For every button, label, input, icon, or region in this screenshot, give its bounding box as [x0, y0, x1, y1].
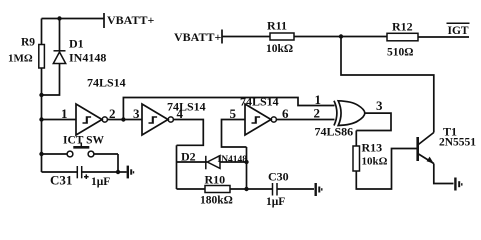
junction: switch row on left rail: [39, 152, 43, 156]
resistor R12: [387, 33, 418, 41]
ground (emitter): [455, 178, 461, 191]
svg-text:1: 1: [61, 106, 68, 121]
capacitor C30: [273, 183, 315, 196]
resistor R11: [270, 33, 294, 40]
resistor R10: [177, 186, 273, 193]
wire: R11 to junction: [294, 36, 341, 38]
wire: VBATT+ to R11: [222, 36, 270, 38]
wire: pin 4 output down to RC network: [173, 120, 203, 146]
ground (C31): [128, 166, 134, 179]
svg-text:10kΩ: 10kΩ: [362, 156, 388, 168]
svg-text:3: 3: [133, 106, 140, 121]
pushbutton switch ICT SW: [42, 143, 119, 157]
svg-text:180kΩ: 180kΩ: [200, 195, 233, 207]
junction: pin 1 tap on left rail: [39, 117, 43, 121]
net label IGT (active low, overline): [447, 23, 470, 37]
svg-text:74LS86: 74LS86: [315, 125, 354, 139]
wire: stub to ground (C31): [118, 171, 127, 173]
wire: pin 5 input from node A: [222, 120, 247, 148]
diode D1: [42, 19, 66, 96]
inverter U3 74LS14 (pins 5-6): [245, 104, 276, 135]
junction: D1 branch to left rail: [39, 93, 43, 97]
svg-text:510Ω: 510Ω: [387, 47, 413, 59]
svg-text:C30: C30: [268, 170, 289, 184]
resistor R9: [39, 45, 45, 69]
svg-text:C31: C31: [50, 173, 72, 188]
power terminal VBATT+ (top left) tick: [103, 13, 105, 28]
wire: node A vertical: [246, 147, 248, 189]
svg-text:R13: R13: [362, 141, 383, 155]
junction: top of D1 branch: [57, 16, 61, 20]
diode D2: [177, 156, 247, 170]
wire: emitter to ground: [434, 164, 454, 184]
svg-text:5: 5: [230, 106, 237, 121]
junction: node A at R10 row: [244, 187, 248, 191]
wire: pin 2 to pin 3: [107, 119, 142, 121]
junction: D2 cathode node: [244, 160, 248, 164]
inverter U2 74LS14 (pins 3-4): [142, 104, 173, 135]
svg-text:2: 2: [109, 106, 116, 121]
svg-text:3: 3: [376, 98, 383, 113]
power terminal VBATT+ (middle) tick: [221, 30, 223, 44]
svg-text:R12: R12: [392, 20, 413, 34]
wire: XOR output: [356, 113, 391, 130]
svg-text:10kΩ: 10kΩ: [266, 43, 293, 55]
wire: pin 6 to XOR input 2: [276, 119, 334, 121]
svg-text:R11: R11: [267, 19, 287, 33]
svg-text:R10: R10: [205, 173, 226, 187]
svg-text:1MΩ: 1MΩ: [8, 53, 33, 65]
junction: C31 / ground node: [116, 170, 120, 174]
svg-text:R9: R9: [21, 37, 35, 49]
wire: R12 to IGT: [418, 36, 469, 38]
svg-text:IN4148: IN4148: [218, 155, 248, 165]
wire: junction to R12: [341, 36, 387, 38]
wire: RC network left rail: [176, 145, 178, 189]
wire: left rail: [41, 19, 43, 173]
svg-text:74LS14: 74LS14: [240, 95, 279, 109]
svg-text:1μF: 1μF: [91, 176, 110, 188]
svg-text:IGT: IGT: [448, 25, 469, 37]
svg-text:1μF: 1μF: [266, 196, 285, 208]
junction: R11/R12/collector node: [339, 34, 343, 38]
xor gate U4 74LS86: [334, 101, 365, 126]
svg-text:2N5551: 2N5551: [439, 137, 476, 149]
wire: top-left VBATT+ rail: [42, 18, 105, 20]
svg-text:74LS14: 74LS14: [87, 76, 126, 90]
transistor T1 2N5551: [418, 133, 434, 164]
resistor R13: [353, 131, 418, 190]
capacitor C31 (polarized): [42, 166, 118, 179]
svg-text:ICT SW: ICT SW: [63, 135, 105, 147]
ground (C30): [316, 183, 322, 196]
svg-text:74LS14: 74LS14: [167, 100, 206, 114]
junction: feedback tap between pins 2 and 3: [121, 117, 125, 121]
svg-text:D2: D2: [181, 150, 196, 164]
svg-text:VBATT+: VBATT+: [174, 30, 221, 44]
svg-text:D1: D1: [69, 37, 84, 51]
wire: pin 1 input: [42, 119, 77, 121]
svg-text:VBATT+: VBATT+: [107, 13, 154, 27]
inverter U1 74LS14 (pins 1-2): [76, 104, 107, 135]
svg-text:2: 2: [314, 106, 321, 121]
wire: collector to R11/R12 junction: [341, 37, 434, 133]
wire: feedback line to XOR input 1: [123, 98, 334, 120]
svg-text:IN4148: IN4148: [69, 51, 106, 65]
wire: switch to C31 row: [117, 154, 119, 172]
